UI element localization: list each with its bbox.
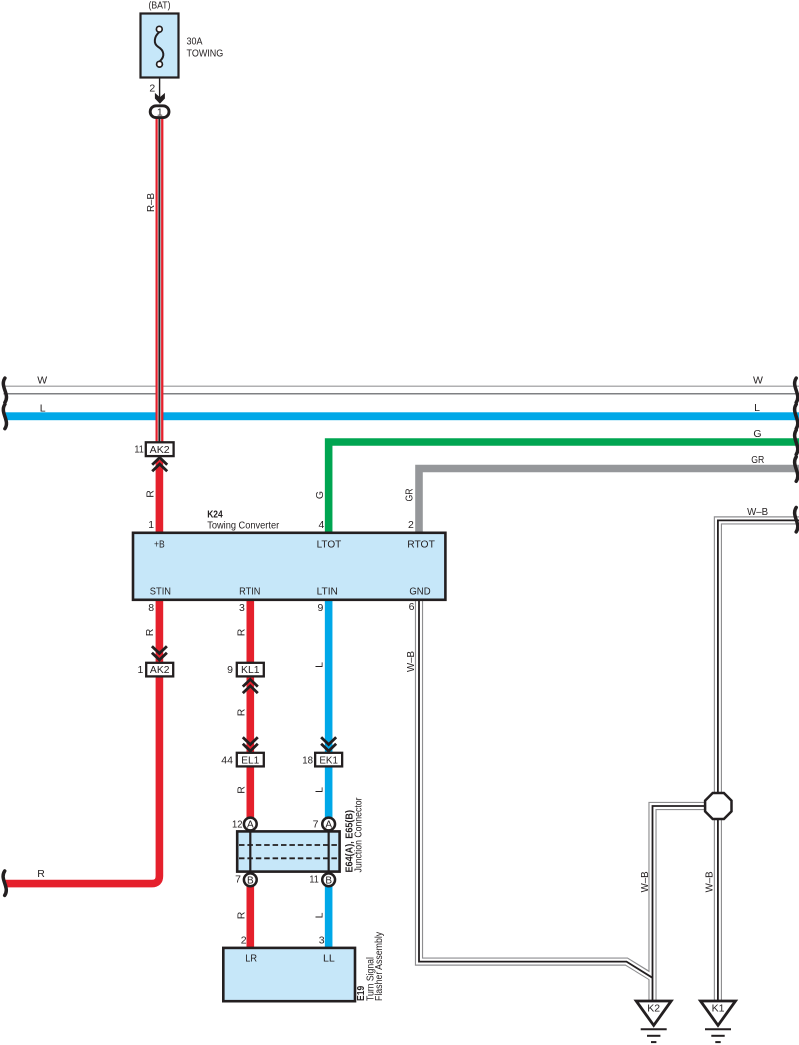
svg-text:R: R [144, 628, 156, 636]
svg-text:W–B: W–B [704, 871, 716, 892]
svg-text:AK2: AK2 [150, 665, 170, 676]
svg-text:12: 12 [232, 819, 243, 831]
svg-text:W–B: W–B [747, 506, 768, 518]
svg-text:R: R [236, 628, 248, 636]
svg-text:W: W [753, 375, 763, 387]
svg-text:11: 11 [134, 443, 144, 455]
svg-text:7: 7 [313, 819, 319, 831]
svg-text:11: 11 [309, 874, 319, 886]
svg-text:W–B: W–B [405, 651, 417, 672]
svg-text:G: G [314, 491, 326, 499]
svg-text:L: L [40, 402, 46, 414]
svg-text:GND: GND [409, 585, 431, 597]
svg-text:7: 7 [235, 874, 241, 886]
svg-text:6: 6 [409, 601, 415, 613]
svg-text:K2: K2 [647, 1002, 660, 1014]
svg-text:Junction Connector: Junction Connector [354, 797, 365, 872]
svg-text:1: 1 [138, 664, 144, 676]
svg-text:Towing Converter: Towing Converter [207, 520, 279, 532]
svg-text:L: L [314, 912, 326, 918]
svg-text:A: A [325, 820, 332, 831]
svg-text:2: 2 [241, 935, 247, 947]
svg-text:8: 8 [148, 602, 154, 614]
svg-text:3: 3 [319, 935, 325, 947]
svg-text:Flasher Assembly: Flasher Assembly [373, 931, 385, 1001]
svg-text:STIN: STIN [150, 585, 171, 597]
svg-text:LTIN: LTIN [317, 585, 338, 597]
svg-text:L: L [754, 402, 760, 414]
svg-text:L: L [314, 662, 326, 668]
svg-text:3: 3 [239, 602, 245, 614]
svg-text:LR: LR [245, 952, 257, 964]
svg-text:GR: GR [751, 454, 764, 466]
svg-text:RTOT: RTOT [407, 538, 435, 550]
svg-text:AK2: AK2 [150, 445, 170, 456]
svg-text:B: B [247, 876, 254, 887]
svg-text:EL1: EL1 [241, 755, 259, 766]
svg-text:4: 4 [319, 519, 325, 531]
svg-text:R–B: R–B [145, 193, 157, 212]
svg-text:R: R [236, 786, 248, 794]
svg-text:2: 2 [408, 519, 414, 531]
svg-text:1: 1 [157, 107, 163, 119]
svg-text:A: A [247, 820, 254, 831]
svg-text:44: 44 [221, 754, 233, 766]
svg-text:R: R [145, 490, 157, 498]
svg-text:1: 1 [148, 519, 154, 531]
svg-text:L: L [314, 787, 326, 793]
svg-text:9: 9 [317, 602, 323, 614]
svg-text:EK1: EK1 [319, 755, 338, 766]
svg-text:KL1: KL1 [241, 665, 260, 676]
svg-text:R: R [236, 708, 248, 716]
svg-text:B: B [325, 876, 332, 887]
svg-text:18: 18 [302, 754, 313, 766]
svg-text:LTOT: LTOT [317, 538, 342, 550]
svg-text:(BAT): (BAT) [149, 0, 171, 12]
svg-text:RTIN: RTIN [239, 585, 260, 597]
svg-text:LL: LL [323, 952, 335, 964]
svg-text:GR: GR [404, 488, 416, 501]
svg-text:TOWING: TOWING [187, 48, 224, 60]
svg-text:2: 2 [149, 83, 155, 95]
svg-text:R: R [37, 868, 45, 880]
svg-text:9: 9 [227, 664, 233, 676]
svg-text:W: W [37, 375, 47, 387]
svg-text:G: G [753, 428, 761, 440]
svg-text:W–B: W–B [639, 871, 651, 892]
svg-text:30A: 30A [187, 36, 203, 48]
svg-text:+B: +B [154, 538, 165, 550]
svg-text:K1: K1 [712, 1002, 725, 1014]
svg-text:R: R [236, 911, 248, 919]
